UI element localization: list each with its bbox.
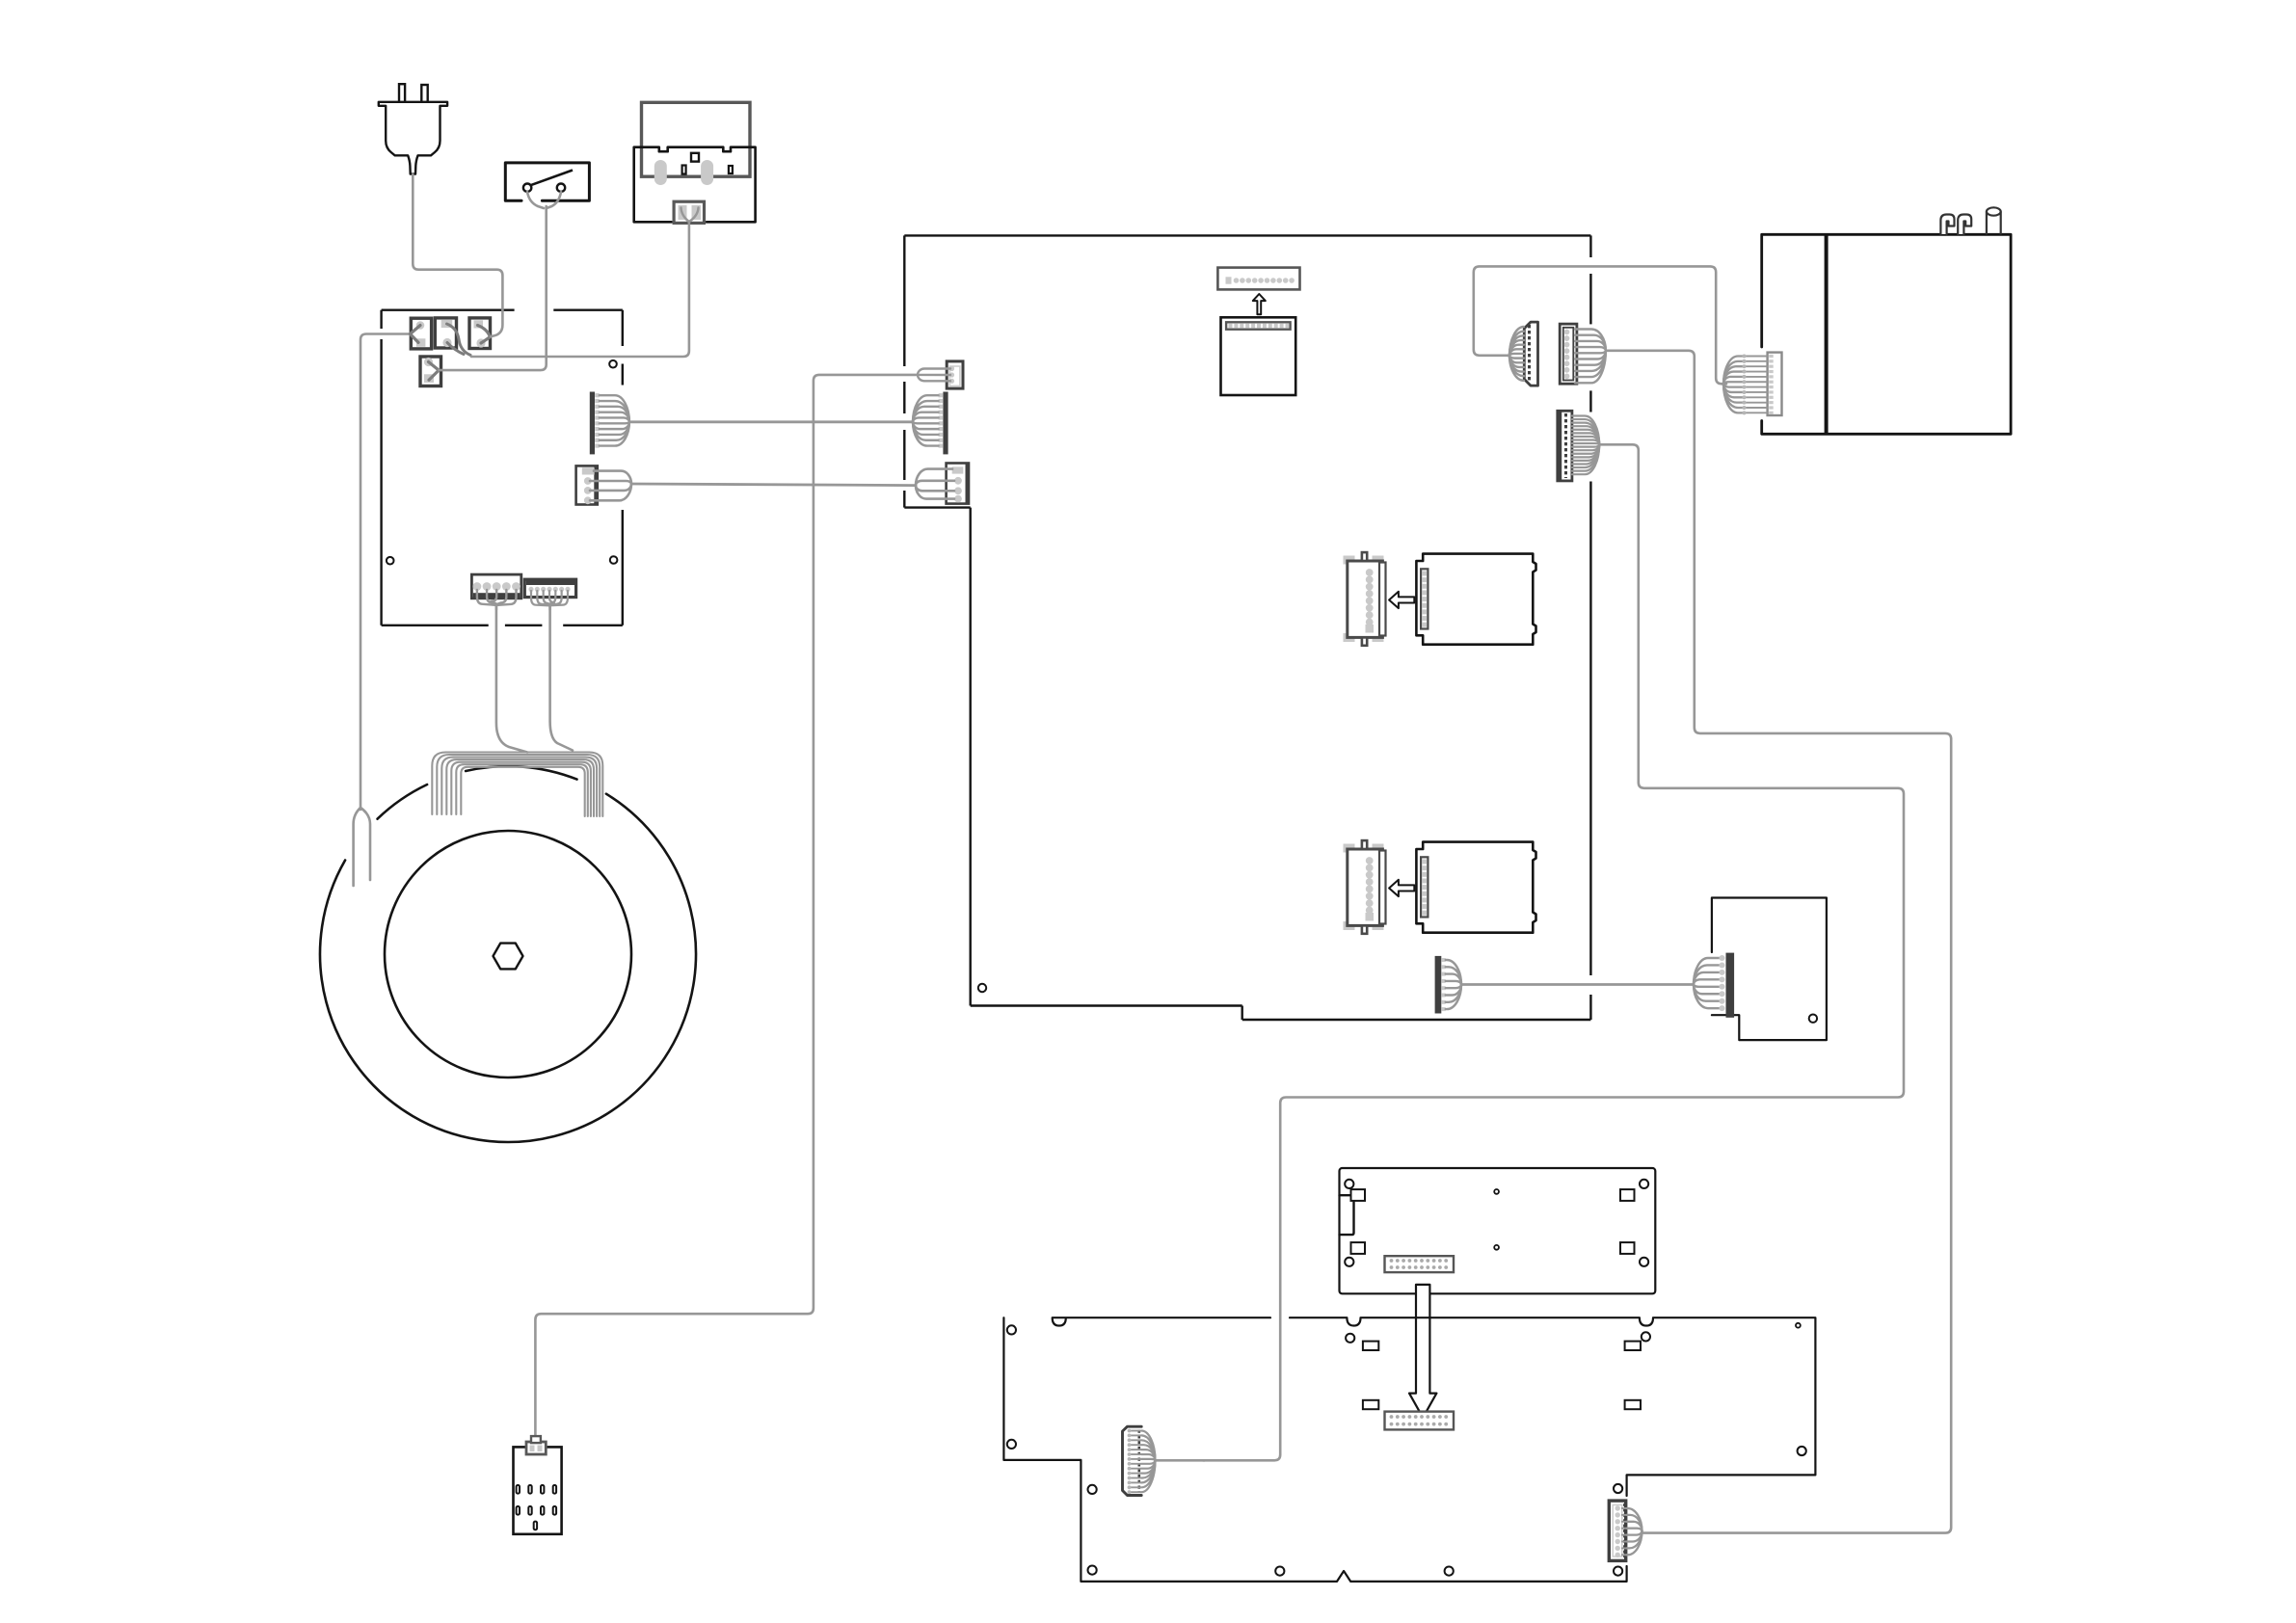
wire SW1-T4: [439, 206, 547, 370]
connector CN3 (12p): [1509, 322, 1538, 386]
board B hole 6: [1445, 1567, 1454, 1576]
entry pad B: [701, 160, 713, 185]
main board hole H4: [978, 984, 986, 992]
entry RJ connector: [674, 201, 704, 223]
connector CN4 (11p): [1560, 324, 1606, 384]
connector CN9 (3p): [918, 361, 963, 388]
wire feeder from CN5: [496, 604, 527, 753]
power board hole H3: [609, 360, 617, 368]
card module assembly B: [1344, 840, 1536, 934]
board B dot: [1796, 1323, 1801, 1328]
PSU divider: [1825, 234, 1829, 434]
PSU post: [1987, 207, 2001, 234]
sensor module outline: [514, 1447, 562, 1533]
spindle hexagon: [494, 944, 523, 970]
connector CN5 (5p): [471, 574, 521, 605]
small module hole: [1809, 1015, 1817, 1023]
ground wire: [360, 334, 411, 811]
cable CN3-PSU: [1474, 266, 1726, 384]
connector CN2 (4p): [576, 466, 631, 504]
bottom board A outline: [1340, 1168, 1656, 1293]
bottom board B outline: [1003, 1317, 1815, 1582]
wire T2b: [447, 343, 464, 355]
board A bracket: [1340, 1195, 1354, 1235]
power board hole H2: [610, 556, 618, 564]
board B comp 2: [1625, 1342, 1641, 1350]
board A dot 2: [1494, 1245, 1499, 1250]
connector CN11 (8p): [1435, 956, 1461, 1014]
ground fork: [354, 808, 370, 886]
main board MB outline: [904, 235, 1590, 1020]
power entry upper box: [642, 102, 751, 176]
terminal T3: [469, 318, 491, 349]
cable CN11-SM: [1461, 983, 1694, 986]
board B hole 2: [1007, 1440, 1016, 1449]
connector CN12 (14p): [1123, 1426, 1206, 1495]
arrow up: [1253, 294, 1266, 314]
connector CN13 (8p): [1609, 1501, 1642, 1560]
connector PSU-CN (12p): [1723, 353, 1782, 415]
board B hole 8: [1346, 1334, 1354, 1343]
fork T1: [411, 326, 421, 343]
board A hole 2: [1640, 1180, 1648, 1188]
connector CN1 (10p): [590, 392, 629, 455]
terminal T2: [435, 318, 456, 348]
display connector J10: [1217, 268, 1299, 290]
small module SM outline: [1712, 898, 1827, 1041]
wire T2a: [447, 324, 471, 355]
board B hole 3: [1088, 1485, 1097, 1494]
wire feeder from CN6: [550, 604, 573, 751]
motor coil harness: [432, 753, 602, 817]
board A comp 4: [1620, 1242, 1635, 1254]
wire CN5 down: [495, 604, 498, 610]
connector CN7 (10p): [913, 392, 948, 455]
board B hole 7: [1614, 1567, 1622, 1576]
power board PB outline: [382, 310, 623, 625]
board B hole 10: [1798, 1447, 1806, 1455]
terminal T4: [420, 357, 441, 386]
board B hole 11: [1614, 1484, 1622, 1493]
cable CN1-CN7: [629, 420, 913, 423]
cable CN10-BB1: [1203, 444, 1904, 1460]
PSU clip A: [1940, 215, 1954, 235]
board A connector JA: [1385, 1256, 1455, 1272]
connector CN10 (18p): [1558, 411, 1599, 481]
platter outer circle: [320, 766, 696, 1142]
switch wires: [527, 192, 561, 208]
card module assembly A: [1344, 552, 1536, 646]
board B hole 9: [1642, 1332, 1650, 1341]
board A hole 3: [1345, 1258, 1353, 1266]
board A comp 3: [1351, 1242, 1366, 1254]
cable CN2-CN8: [631, 484, 916, 486]
power supply box PSU: [1762, 234, 2011, 434]
arrow down: [1409, 1285, 1436, 1418]
wire CN6 down: [548, 604, 551, 610]
entry pad A: [654, 160, 667, 185]
entry square: [691, 153, 699, 162]
platter inner circle: [385, 831, 631, 1078]
power entry lower box: [634, 147, 756, 223]
board A hole 1: [1345, 1180, 1353, 1188]
board B comp 3: [1363, 1400, 1378, 1409]
sensor module slots: [517, 1485, 557, 1530]
board A comp 2: [1620, 1189, 1635, 1201]
board B comp 1: [1363, 1342, 1378, 1350]
fork T3: [478, 326, 491, 344]
board A hole 4: [1640, 1258, 1648, 1266]
connector CN6 (7p): [524, 579, 575, 605]
power board hole H1: [387, 557, 394, 565]
display module U10: [1221, 317, 1296, 395]
wire RJ-T2: [471, 223, 689, 358]
sensor module connector: [526, 1436, 546, 1454]
PSU clip B: [1958, 215, 1971, 235]
connector CN8 (4p): [916, 464, 969, 504]
terminal T1: [411, 318, 431, 349]
entry slot B: [729, 166, 733, 173]
connector SM-CN (8p): [1694, 953, 1734, 1018]
board B hole 5: [1275, 1567, 1284, 1576]
switch SW1: [505, 163, 589, 200]
wire module-CN9: [535, 375, 918, 1437]
AC cord: [413, 174, 502, 336]
board B comp 4: [1625, 1400, 1641, 1409]
entry slot A: [682, 166, 686, 174]
AC plug P1: [379, 84, 447, 173]
board B hole 4: [1088, 1566, 1097, 1575]
board A comp 1: [1351, 1189, 1366, 1201]
board A dot 1: [1494, 1189, 1499, 1194]
cable CN4-BB2: [1606, 351, 1951, 1533]
board B connector JB: [1385, 1412, 1455, 1430]
fork T4: [429, 362, 440, 381]
board B hole 1: [1007, 1325, 1016, 1334]
